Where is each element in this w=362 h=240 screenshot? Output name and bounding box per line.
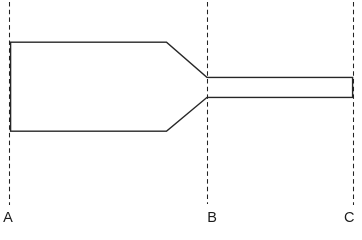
section line B (dashed) <box>207 2 209 204</box>
section line C (dashed) <box>353 2 355 205</box>
section line A (dashed) <box>9 2 11 205</box>
svg-text:B: B <box>207 210 217 226</box>
tapered bar outline <box>11 42 353 131</box>
svg-text:C: C <box>344 210 354 226</box>
svg-text:A: A <box>3 210 13 226</box>
